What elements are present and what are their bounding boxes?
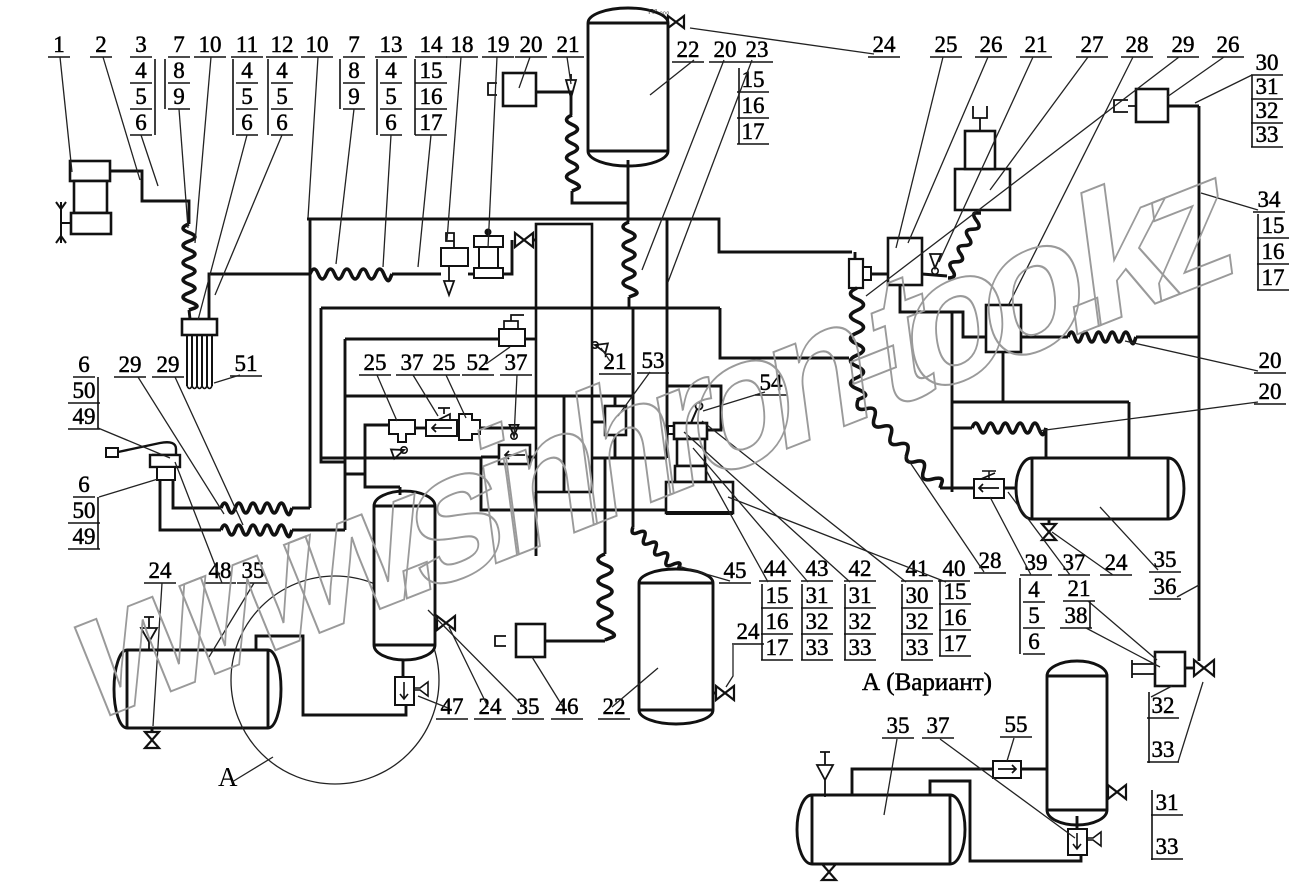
coil 7 discharge hose	[183, 224, 197, 310]
svg-text:50: 50	[73, 378, 96, 403]
svg-text:4: 4	[385, 58, 397, 83]
leader 24 top	[690, 28, 874, 54]
svg-text:29: 29	[1172, 32, 1195, 57]
connector stub 46	[495, 636, 506, 646]
connector stub 38	[1132, 660, 1155, 678]
leader 13	[383, 135, 391, 267]
leader 29b	[175, 377, 243, 525]
limit valve 25a	[389, 420, 415, 442]
leader 37b	[514, 375, 517, 438]
wire 46 right	[545, 640, 605, 643]
leader 35d	[884, 739, 897, 815]
svg-text:17: 17	[742, 119, 765, 144]
leader 21	[567, 57, 571, 84]
lever ball 54	[696, 403, 703, 410]
leader 10b	[308, 57, 318, 218]
wire coil45 to tank	[677, 570, 680, 575]
svg-text:29: 29	[157, 352, 180, 377]
leader A	[232, 757, 273, 782]
svg-text:37: 37	[401, 350, 424, 375]
drain funnel 21a	[566, 74, 576, 98]
hand valve 41 base bottom	[666, 511, 733, 515]
svg-text:17: 17	[1262, 265, 1285, 290]
valve at x1199 bottom	[1194, 660, 1214, 676]
bus vertical x345	[344, 339, 347, 530]
bracket 31-33	[1151, 790, 1153, 860]
valve on tank35	[437, 616, 455, 630]
wire 28 bottom	[1002, 352, 1005, 402]
wire dryer to bus	[209, 274, 310, 319]
svg-text:22: 22	[677, 37, 700, 62]
block stub bottom	[535, 492, 538, 556]
column under 23 bracket	[738, 68, 740, 144]
check valve 37b body	[499, 445, 530, 464]
leader 22c	[612, 668, 658, 707]
hand valve 41 mid	[677, 439, 705, 466]
leader 52	[486, 347, 510, 364]
wire 37b left	[481, 456, 500, 459]
tank35 top stem	[399, 487, 402, 495]
leader 6-50-49 b	[99, 479, 158, 497]
leader 37 mid	[413, 375, 438, 416]
drain br tank	[822, 864, 836, 880]
check valve 55	[993, 761, 1021, 778]
svg-text:11: 11	[236, 32, 258, 57]
svg-text:24: 24	[737, 619, 761, 644]
wire coil46 bottom	[604, 640, 607, 641]
air reservoir 22 top	[588, 8, 668, 166]
antenna 27	[973, 106, 987, 130]
column under 40 bracket	[939, 580, 941, 656]
leader 24d	[1052, 532, 1113, 575]
leader 1	[60, 57, 72, 172]
svg-text:33: 33	[1156, 834, 1179, 859]
leader 19	[488, 57, 497, 248]
svg-text:28: 28	[1126, 32, 1149, 57]
leader 42	[684, 432, 850, 582]
svg-text:13: 13	[380, 32, 403, 57]
leader 31-33 col	[1178, 682, 1203, 762]
drain valve under right tank	[1042, 524, 1056, 540]
wire coil to check 39	[940, 487, 974, 490]
bracket 6-50-49 b	[97, 497, 99, 549]
svg-text:10: 10	[306, 32, 329, 57]
leader 26 top	[908, 57, 988, 243]
safety valve on tank top	[668, 16, 684, 28]
svg-text:15: 15	[766, 583, 789, 608]
svg-text:32: 32	[806, 609, 829, 634]
four-circuit protection valve body	[536, 224, 592, 492]
bus line 5	[321, 457, 481, 460]
svg-text:А (Вариант): А (Вариант)	[862, 669, 992, 696]
svg-text:15: 15	[420, 58, 443, 83]
block inner vertical	[563, 396, 566, 492]
svg-text:24: 24	[479, 694, 503, 719]
compressor 1 body	[74, 181, 107, 213]
leader 27	[990, 57, 1088, 190]
svg-text:45: 45	[724, 558, 747, 583]
valve right of vtank br	[1108, 785, 1126, 799]
svg-text:16: 16	[766, 609, 789, 634]
leader 39	[990, 497, 1031, 575]
air dryer 51 cap	[182, 319, 217, 335]
svg-text:4: 4	[135, 58, 147, 83]
leader 47	[418, 696, 448, 708]
column under 44 bracket	[761, 584, 763, 660]
wire compressor to coil	[110, 171, 189, 224]
svg-text:6: 6	[276, 110, 288, 135]
svg-text:21: 21	[1068, 576, 1091, 601]
svg-text:40: 40	[943, 556, 966, 581]
pressure switch 46	[516, 624, 545, 657]
svg-text:55: 55	[1005, 712, 1028, 737]
leader 18	[447, 57, 461, 240]
hand valve 41 left nub	[668, 426, 674, 434]
svg-text:31: 31	[1256, 74, 1279, 99]
air reservoir 35 right	[1016, 458, 1184, 519]
wire coil23 to bus2	[628, 297, 631, 308]
svg-text:49: 49	[73, 404, 96, 429]
wire coil46 up	[604, 458, 607, 554]
tank35 stem	[402, 660, 405, 677]
svg-text:20: 20	[1259, 379, 1282, 404]
wire x952 to 39	[952, 487, 974, 490]
leader 41	[702, 421, 906, 582]
leader 20	[519, 57, 530, 88]
svg-text:24: 24	[873, 32, 897, 57]
leader 34	[1201, 193, 1258, 210]
svg-text:46: 46	[556, 694, 579, 719]
coil 20a	[1068, 332, 1136, 344]
bus vertical x321	[321, 308, 345, 462]
drain valve 47	[395, 677, 414, 705]
leader 20 right b	[1038, 402, 1258, 431]
wire row left feed	[365, 425, 400, 487]
relay valve 26a	[888, 238, 922, 285]
wire tank down	[627, 160, 630, 222]
svg-text:32: 32	[1152, 693, 1175, 718]
branch to x345	[345, 473, 365, 476]
svg-text:32: 32	[906, 609, 929, 634]
coil 23 below tank	[623, 222, 637, 297]
column under 7b bracket	[339, 59, 341, 109]
svg-text:49: 49	[73, 524, 96, 549]
wire y402 drop to tank	[1128, 402, 1131, 459]
test funnel 21b	[592, 342, 598, 348]
leader 20 right a	[1125, 341, 1258, 371]
svg-text:23: 23	[746, 37, 769, 62]
svg-text:6: 6	[241, 110, 253, 135]
right vertical bus x1199	[1198, 106, 1201, 661]
stub sensor to valve	[1185, 667, 1194, 670]
leader 10a	[195, 57, 211, 243]
leader 29 top	[866, 57, 1179, 296]
svg-text:25: 25	[364, 350, 387, 375]
bus line 1 upper	[307, 219, 852, 252]
svg-text:33: 33	[1256, 122, 1279, 147]
coil 45	[632, 527, 680, 570]
air reservoir 22 bottom	[639, 569, 713, 724]
pressure sensor 26b	[1136, 89, 1168, 122]
pressure regulator 18	[446, 233, 454, 248]
column under 3 bracket	[154, 59, 156, 135]
air reservoir 35 left	[114, 650, 281, 728]
leader 44	[706, 470, 768, 582]
column under 11 bracket	[232, 59, 234, 135]
column under 43 bracket	[801, 584, 803, 660]
svg-text:25: 25	[433, 350, 456, 375]
svg-text:5: 5	[276, 84, 288, 109]
leader 7b	[336, 109, 354, 264]
vent valve left tank	[141, 617, 157, 649]
leader 24 mid tank	[726, 645, 733, 687]
svg-text:25: 25	[935, 32, 958, 57]
leader 51	[214, 375, 240, 383]
leader 35b	[428, 610, 524, 707]
svg-text:33: 33	[906, 635, 929, 660]
bracket 21-38	[1089, 601, 1091, 628]
svg-text:17: 17	[944, 631, 967, 656]
check valve 37b arrow	[505, 451, 525, 459]
column 4-5-6 bracket	[1019, 578, 1021, 654]
leader 40	[728, 497, 946, 582]
compressor 1 top	[70, 161, 110, 181]
wire filter out	[503, 240, 512, 274]
svg-text:15: 15	[1262, 213, 1285, 238]
svg-text:14: 14	[420, 32, 444, 57]
svg-text:4: 4	[241, 58, 253, 83]
coil 46	[598, 554, 614, 640]
wire 37b right	[527, 456, 536, 459]
leader 29a	[138, 377, 224, 514]
svg-text:30: 30	[1256, 50, 1279, 75]
svg-text:37: 37	[927, 713, 950, 738]
block divider a	[536, 307, 592, 310]
pressure sensor 38	[1155, 652, 1185, 686]
column under 14 bracket	[414, 59, 416, 135]
long coil diagonal	[857, 400, 942, 488]
bus line 396	[345, 395, 633, 398]
svg-text:6: 6	[385, 110, 397, 135]
leader 28b	[905, 455, 984, 572]
wire y402	[952, 401, 1129, 404]
svg-text:16: 16	[944, 605, 967, 630]
svg-text:19: 19	[487, 32, 510, 57]
air dryer 51 tubes	[187, 335, 212, 386]
leader 45	[678, 566, 730, 581]
hand valve 41 low	[675, 466, 706, 482]
leader 3	[141, 135, 158, 186]
svg-text:30: 30	[906, 583, 929, 608]
wire 26a right	[922, 274, 947, 276]
leader 43	[693, 448, 808, 582]
svg-text:42: 42	[849, 556, 872, 581]
watermark www.sinhron-too.kz	[65, 107, 1238, 763]
svg-text:16: 16	[1262, 239, 1285, 264]
svg-text:32: 32	[1256, 98, 1279, 123]
leader 21d	[1088, 601, 1157, 660]
leader 54	[703, 392, 765, 411]
wire 28 right to coil20a	[1021, 336, 1068, 339]
svg-text:6: 6	[78, 472, 90, 497]
svg-text:17: 17	[420, 110, 443, 135]
pipe 55 to vtank	[1021, 768, 1047, 771]
tee valve 25c	[849, 259, 863, 288]
pipe staircase to 47	[256, 636, 406, 715]
hand valve 41 top	[674, 423, 707, 439]
connector stub 26b	[1114, 100, 1137, 112]
leader 12	[215, 135, 282, 295]
wire 39 to tank	[1004, 487, 1032, 490]
bus vertical left x307	[309, 219, 312, 508]
svg-text:31: 31	[1156, 790, 1179, 815]
coil 29 top bus	[310, 269, 392, 281]
stub tank22 valve	[713, 692, 716, 695]
leader 46	[532, 657, 563, 707]
leader 6-50-49 a	[98, 428, 170, 458]
svg-text:32: 32	[849, 609, 872, 634]
bus line 3	[345, 338, 499, 341]
leader 32-33 col	[1151, 686, 1172, 697]
wire 53 top	[614, 396, 617, 406]
vertical x667 feed	[666, 219, 669, 458]
air reservoir 35 center	[374, 491, 435, 660]
wire 26a to 28 loop	[900, 285, 986, 337]
leader 14	[418, 135, 431, 267]
wire coil lower right	[292, 529, 345, 532]
leader 7	[179, 109, 188, 228]
column under 13 bracket	[376, 59, 378, 135]
svg-text:5: 5	[241, 84, 253, 109]
leader 35 left	[209, 583, 254, 657]
filter 19	[485, 229, 492, 236]
column under 12 bracket	[267, 59, 269, 135]
svg-text:36: 36	[1154, 574, 1177, 599]
leader 20 topmid	[642, 60, 724, 270]
leader 26b	[1167, 57, 1224, 97]
wire 26b to right bus	[1168, 105, 1199, 108]
stub drain right tank	[1048, 519, 1051, 524]
svg-text:15: 15	[944, 579, 967, 604]
wire coil to dryer	[189, 310, 190, 319]
bus3 into block	[525, 338, 536, 341]
svg-text:6: 6	[1028, 629, 1040, 654]
brake chamber 27 body	[955, 169, 1010, 210]
wire row to block	[480, 427, 536, 430]
svg-text:12: 12	[271, 32, 294, 57]
long coil from 25c	[851, 288, 866, 400]
svg-text:4: 4	[276, 58, 288, 83]
coil below box 20	[567, 115, 580, 191]
leader 53	[618, 372, 650, 416]
svg-text:35: 35	[517, 694, 540, 719]
svg-text:16: 16	[742, 93, 765, 118]
svg-text:9: 9	[173, 84, 185, 109]
wire coil20b to tank	[1045, 428, 1048, 458]
svg-text:33: 33	[806, 635, 829, 660]
vent valve br tank	[817, 752, 833, 797]
svg-text:7: 7	[348, 32, 360, 57]
svg-text:8: 8	[348, 58, 360, 83]
bus line 5b	[592, 457, 667, 460]
svg-text:5: 5	[385, 84, 397, 109]
wire 53 down	[614, 435, 617, 458]
hook to valve 54	[667, 386, 721, 430]
svg-text:34: 34	[1258, 187, 1282, 212]
detail circle A	[231, 576, 439, 784]
svg-text:8: 8	[173, 58, 185, 83]
wire coil upper right	[292, 507, 310, 510]
vertical x633 down	[632, 308, 635, 527]
svg-text:52: 52	[467, 350, 490, 375]
svg-text:5: 5	[135, 84, 147, 109]
pipe drain loop	[930, 781, 1081, 861]
svg-text:17: 17	[766, 635, 789, 660]
valve 52	[499, 329, 525, 346]
leader 28 top	[1008, 57, 1133, 306]
block divider b	[536, 395, 592, 398]
funnel above 37b	[511, 433, 517, 439]
shutoff valve near block	[515, 233, 533, 247]
svg-text:44: 44	[764, 556, 788, 581]
svg-text:⊓ᵒ ₀₀₀: ⊓ᵒ ₀₀₀	[648, 7, 669, 16]
svg-text:31: 31	[849, 583, 872, 608]
svg-text:4: 4	[1028, 577, 1040, 602]
check valve 37a	[438, 408, 450, 420]
stub valve vtank br	[1107, 791, 1108, 794]
coil 50 lower	[221, 525, 292, 537]
leader 24 left	[153, 583, 162, 726]
svg-text:7: 7	[173, 32, 185, 57]
air reservoir 35 br	[797, 795, 965, 864]
leader 38	[1086, 628, 1160, 667]
svg-text:27: 27	[1081, 32, 1104, 57]
svg-text:9: 9	[348, 84, 360, 109]
wire coil20b left	[952, 427, 972, 430]
svg-text:20: 20	[520, 32, 543, 57]
svg-text:21: 21	[557, 32, 580, 57]
drain funnel below 25a	[401, 447, 407, 453]
column under 41 bracket	[901, 584, 903, 660]
svg-text:37: 37	[505, 350, 528, 375]
svg-text:26: 26	[1217, 32, 1240, 57]
funnel 21c	[932, 268, 938, 274]
svg-text:38: 38	[1065, 603, 1088, 628]
leader 11	[198, 135, 247, 320]
air reservoir vertical br	[1047, 661, 1107, 825]
svg-text:5: 5	[1028, 603, 1040, 628]
svg-text:41: 41	[906, 556, 929, 581]
leader 35c	[1100, 507, 1158, 570]
coil 50 upper	[221, 503, 292, 515]
leader 23	[668, 60, 752, 282]
leader 36	[1177, 585, 1199, 597]
svg-text:33: 33	[849, 635, 872, 660]
wire hand valve left leg	[160, 480, 221, 530]
compressor 1 base	[71, 213, 111, 234]
wire 25a-37a	[415, 427, 426, 430]
svg-text:33: 33	[1152, 737, 1175, 762]
svg-text:20: 20	[714, 37, 737, 62]
stub drain left tank	[151, 727, 154, 733]
svg-text:16: 16	[420, 84, 443, 109]
wire coil20 to stem	[572, 191, 628, 203]
leader 25 mid	[377, 375, 397, 421]
svg-text:51: 51	[235, 351, 258, 376]
leader 21 topc	[939, 57, 1033, 262]
leader 22 top	[650, 60, 694, 95]
svg-text:31: 31	[806, 583, 829, 608]
